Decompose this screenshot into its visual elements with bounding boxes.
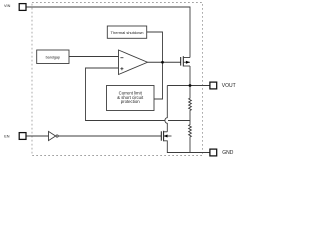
pin EN	[19, 133, 26, 140]
box current limit	[107, 86, 155, 111]
transistor Q2 NMOS gate plate	[160, 131, 162, 140]
wire VIN rail	[26, 7, 190, 58]
pin VIN	[19, 4, 26, 11]
transistor Q1 PMOS gate plate	[180, 57, 182, 66]
transistor Q2 NMOS drain terminal	[163, 131, 167, 133]
svg-text:Thermal shutdown: Thermal shutdown	[111, 30, 144, 35]
svg-text:protection: protection	[121, 99, 140, 104]
transistor Q1 PMOS channel	[182, 56, 184, 66]
wire NMOS drain riser with hop	[165, 86, 167, 132]
svg-text:VOUT: VOUT	[222, 83, 236, 89]
transistor Q1 PMOS source terminal	[183, 57, 190, 59]
op-amp minus marker	[120, 57, 123, 59]
wire bandgap to op-amp inverting input	[69, 56, 119, 58]
op-amp plus marker	[120, 67, 123, 70]
svg-text:EN: EN	[4, 134, 10, 138]
wire inverter to NMOS gate	[58, 135, 161, 137]
wire VOUT line	[167, 85, 210, 87]
transistor Q1 PMOS bulk arrow	[186, 61, 190, 64]
junction dot VOUT node	[189, 84, 192, 87]
op-amp U1	[119, 50, 148, 75]
pin VOUT	[210, 82, 217, 89]
transistor Q1 PMOS drain terminal	[183, 65, 190, 67]
wire thermal shutdown / current limit to gate node	[147, 32, 163, 99]
junction dot gate node	[161, 61, 164, 64]
wire op-amp output to PMOS gate	[148, 61, 181, 63]
inverter U2	[49, 131, 56, 140]
svg-text:VIN: VIN	[4, 4, 11, 8]
transistor Q2 NMOS bulk line	[163, 135, 171, 137]
pin GND	[210, 149, 217, 156]
transistor Q2 NMOS source terminal and GND rail	[163, 141, 210, 153]
wire feedback to op-amp + input	[86, 68, 191, 121]
dashed IC boundary	[32, 3, 203, 156]
wire PMOS drain to VOUT node	[189, 66, 191, 86]
transistor Q1 PMOS bulk line	[183, 61, 190, 63]
svg-text:bandgap: bandgap	[46, 56, 60, 60]
svg-text:GND: GND	[222, 150, 234, 156]
wire EN to inverter	[26, 135, 49, 137]
resistor R1	[189, 86, 192, 121]
resistor R2	[189, 121, 192, 153]
box thermal shutdown	[107, 26, 146, 38]
transistor Q2 NMOS bulk arrow	[164, 135, 168, 138]
transistor Q2 NMOS channel	[163, 131, 165, 141]
box bandgap	[37, 50, 69, 64]
